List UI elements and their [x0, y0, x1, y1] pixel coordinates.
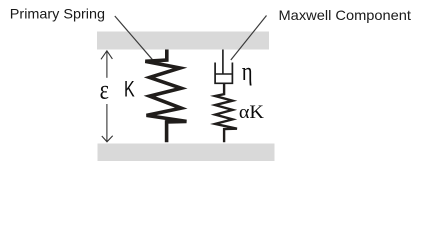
svg-text:αK: αK — [239, 102, 264, 123]
svg-text:Primary Spring: Primary Spring — [10, 7, 105, 22]
svg-text:ε: ε — [100, 76, 109, 106]
svg-text:K: K — [124, 77, 135, 102]
svg-text:Maxwell Component: Maxwell Component — [279, 8, 412, 23]
svg-text:η: η — [242, 58, 253, 87]
